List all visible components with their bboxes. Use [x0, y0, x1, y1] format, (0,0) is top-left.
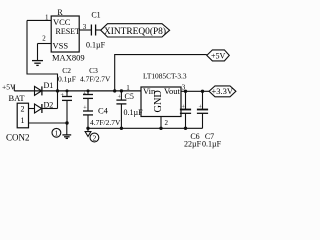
- svg-text:GND: GND: [153, 90, 164, 113]
- svg-text:VCC: VCC: [53, 17, 71, 27]
- svg-text:0.1µF: 0.1µF: [124, 108, 144, 117]
- svg-text:C5: C5: [125, 92, 134, 101]
- svg-text:LT1085CT-3.3: LT1085CT-3.3: [143, 72, 187, 81]
- svg-text:R: R: [57, 8, 63, 17]
- svg-text:D1: D1: [44, 81, 54, 90]
- svg-text:2: 2: [93, 133, 97, 142]
- svg-text:1: 1: [45, 14, 49, 22]
- svg-text:2: 2: [42, 35, 46, 43]
- svg-text:VSS: VSS: [53, 41, 69, 51]
- svg-text:0.1µF: 0.1µF: [58, 74, 76, 83]
- svg-text:4.7F/2.7V: 4.7F/2.7V: [80, 74, 111, 83]
- svg-text:2: 2: [21, 105, 25, 114]
- svg-text:C1: C1: [91, 11, 100, 20]
- svg-text:0.1µF: 0.1µF: [86, 41, 106, 50]
- svg-text:MAX809: MAX809: [52, 53, 85, 63]
- svg-text:2: 2: [165, 119, 169, 127]
- svg-text:CON2: CON2: [6, 133, 30, 143]
- svg-text:+3.3V: +3.3V: [212, 86, 234, 96]
- svg-text:XINTREQ0(P8): XINTREQ0(P8): [104, 26, 166, 37]
- svg-text:22µF: 22µF: [184, 139, 202, 148]
- svg-text:+5V: +5V: [211, 51, 226, 60]
- svg-text:Vout: Vout: [164, 86, 181, 96]
- svg-text:1: 1: [21, 116, 25, 125]
- svg-text:C4: C4: [98, 106, 109, 116]
- svg-text:4.7F/2.7V: 4.7F/2.7V: [90, 118, 121, 127]
- svg-text:RESET: RESET: [56, 27, 81, 36]
- svg-text:BAT: BAT: [9, 93, 26, 103]
- svg-text:1: 1: [55, 129, 59, 138]
- svg-text:0.1µF: 0.1µF: [202, 139, 222, 148]
- svg-text:1: 1: [126, 84, 130, 92]
- svg-text:3: 3: [83, 23, 87, 31]
